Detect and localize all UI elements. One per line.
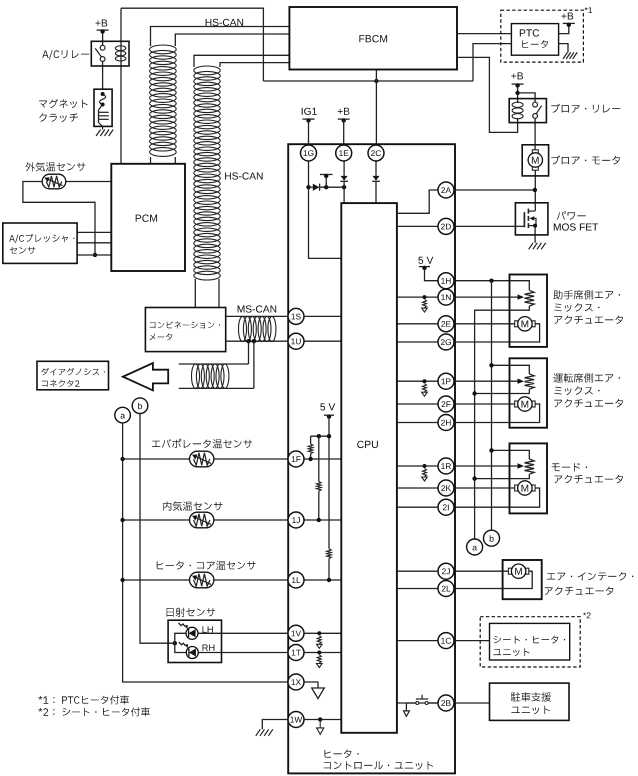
pin 1F bbox=[288, 451, 304, 467]
wire FBCM to PTC heater upper pin bbox=[457, 33, 511, 35]
wire rail to PTC heater lower pin bbox=[473, 44, 511, 81]
wire MS-CAN bottom conductor to pin 1U bbox=[226, 340, 289, 342]
wire A/C relay coil to top bus, down to PCM bbox=[121, 8, 263, 81]
wire diag pair risers bbox=[248, 341, 250, 364]
label *2 bbox=[583, 612, 591, 618]
pin 1R bbox=[438, 458, 454, 474]
pin 1S bbox=[288, 308, 304, 324]
wire FBCM to blower relay coil bbox=[457, 57, 518, 132]
heater core temp sensor row 1L bbox=[123, 579, 190, 581]
label MS-CAN bbox=[238, 305, 277, 312]
wire blower relay +B and switch bbox=[512, 83, 524, 85]
interior temp sensor bbox=[190, 512, 214, 528]
wire b tee to actuator3 pot top bbox=[492, 450, 530, 459]
heater core temp sensor bbox=[190, 572, 214, 588]
pin 2D bbox=[438, 218, 454, 234]
MOS FET symbol bbox=[523, 212, 525, 227]
A/C relay switch bbox=[100, 45, 105, 50]
wire MS-CAN top conductor to pin 1S bbox=[226, 315, 289, 317]
blower relay box bbox=[509, 99, 546, 123]
pin 1W bbox=[288, 712, 304, 728]
pin 1P bbox=[438, 373, 454, 389]
blower motor box bbox=[522, 145, 548, 176]
ground below magnet clutch bbox=[96, 130, 113, 137]
sun sensor RH row 1T bbox=[198, 652, 288, 654]
label HS-CAN middle bbox=[225, 172, 263, 179]
PTC heater dashed box bbox=[501, 10, 584, 62]
A/C pressure sensor box bbox=[3, 223, 77, 263]
evaporator temp sensor row 1F bbox=[123, 458, 190, 460]
outside air temp sensor bbox=[42, 174, 66, 189]
diode on 1E line bbox=[343, 160, 345, 176]
FBCM bbox=[289, 7, 457, 70]
wire pin 1R to actuator3 wiper bbox=[397, 465, 438, 467]
wire pin 1S to CPU bbox=[304, 315, 341, 317]
label passenger air mix actuator bbox=[553, 290, 620, 299]
node a (left) bbox=[115, 407, 131, 423]
node b (right) bbox=[484, 530, 500, 546]
wire pin 2H to actuator2 motor return bbox=[397, 422, 438, 424]
parking assist unit box bbox=[490, 683, 570, 720]
diode on 2C line bbox=[375, 160, 377, 176]
sun sensor common from b bbox=[173, 641, 177, 645]
wire +B to A/C relay switch bbox=[102, 32, 104, 46]
twisted pair HS-CAN 1 (FBCM-PCM) bbox=[150, 45, 177, 156]
power tap above diode junction bbox=[325, 176, 327, 187]
junction b riser top bbox=[489, 279, 493, 283]
label air intake actuator bbox=[547, 572, 634, 581]
pin 2E bbox=[438, 316, 454, 332]
label sun sensor bbox=[167, 608, 216, 617]
wire pin 2I to actuator3 motor return bbox=[397, 506, 438, 508]
wire outside air temp sensor return loop bbox=[23, 182, 95, 256]
magnet clutch coil/spring bbox=[101, 92, 105, 96]
node a (right) bbox=[467, 539, 483, 555]
label mode actuator bbox=[552, 463, 588, 472]
wire pin 1C to seat heater unit bbox=[397, 640, 438, 642]
label driver air mix actuator bbox=[553, 373, 620, 382]
ESD network at 1R bbox=[423, 464, 427, 468]
wire pin 1H to actuator1 pot top bbox=[454, 281, 529, 291]
wire PTC heater ground bbox=[559, 44, 568, 53]
label outside air temp sensor bbox=[25, 162, 85, 171]
5V label left bbox=[320, 403, 335, 410]
footnote *2 bbox=[38, 707, 149, 716]
pin 2A bbox=[438, 182, 454, 198]
5V pull-up rail bbox=[324, 414, 334, 416]
pull-up tee bbox=[311, 435, 329, 437]
pin 1U bbox=[288, 333, 304, 349]
A/C relay coil bbox=[115, 46, 125, 61]
pin 2J bbox=[438, 563, 454, 579]
actuator2 potentiometer bbox=[525, 374, 535, 389]
wire MOS FET source to ground bbox=[534, 226, 536, 243]
blower relay coil bbox=[512, 102, 523, 119]
+B at A/C relay bbox=[96, 20, 108, 27]
wire pair2 straight section to combination meter bbox=[194, 279, 196, 308]
blower relay switch bbox=[533, 102, 538, 107]
evaporator temp sensor bbox=[190, 451, 214, 467]
wire pin 2L to intake actuator motor return bbox=[397, 588, 438, 590]
combination meter box bbox=[145, 308, 225, 352]
seat heater unit box bbox=[490, 623, 570, 660]
pin 1L bbox=[288, 572, 304, 588]
+B at PTC bbox=[562, 13, 574, 20]
wires A/C pressure sensor to PCM bbox=[77, 231, 111, 233]
wire a riser (pot return) bbox=[475, 306, 530, 539]
actuator3 motor bbox=[515, 485, 518, 491]
wire pin 1N to actuator1 wiper bbox=[397, 296, 438, 298]
wire pin 2F to actuator2 motor bbox=[397, 403, 438, 405]
actuator1 motor bbox=[515, 321, 518, 327]
wire pin 2G to actuator1 motor return bbox=[397, 341, 438, 343]
pin 1V bbox=[288, 625, 304, 641]
pin 1H bbox=[438, 273, 454, 289]
mode actuator box bbox=[510, 443, 548, 513]
wire 5V to pin 1H bbox=[419, 266, 430, 268]
parking switch to ground at 2B bbox=[406, 703, 416, 711]
pin 2C bbox=[368, 145, 384, 161]
pin 1G bbox=[301, 145, 317, 161]
wire 1W to CPU bbox=[304, 719, 341, 721]
wire pin 2B to parking assist unit bbox=[397, 702, 438, 704]
driver air mix actuator box bbox=[510, 358, 548, 427]
wire HS-CAN pair1 conductors to FBCM bbox=[151, 27, 290, 47]
wire 1W to chassis ground bbox=[262, 720, 288, 730]
wire pin 2E to actuator1 motor bbox=[397, 323, 438, 325]
sun sensor LH photodiode bbox=[186, 627, 198, 639]
passenger air mix actuator box bbox=[510, 275, 548, 347]
pin 2H bbox=[438, 415, 454, 431]
wire blower motor to MOS FET drain bbox=[534, 170, 536, 211]
actuator3 potentiometer bbox=[525, 459, 535, 474]
twisted pair MS-CAN (horizontal) bbox=[239, 316, 276, 341]
twisted pair diagnosis connector (horizontal) bbox=[192, 364, 229, 388]
pin 2B bbox=[438, 695, 454, 711]
wire outside air temp sensor to PCM bbox=[66, 181, 112, 183]
wire b riser (pot supply) bbox=[491, 281, 493, 531]
pin 2F bbox=[438, 396, 454, 412]
PCM bbox=[111, 164, 185, 271]
seat heater dashed box bbox=[480, 617, 580, 667]
CPU bbox=[341, 203, 397, 733]
label A/C relay bbox=[42, 50, 89, 60]
wire pin 2J to intake actuator motor bbox=[397, 570, 438, 572]
label *1 bbox=[585, 7, 593, 13]
wire b bus down to sun sensor bbox=[140, 414, 175, 644]
diagnosis connector 2 box bbox=[37, 361, 109, 390]
pin 2L bbox=[438, 581, 454, 597]
label HS-CAN top bbox=[206, 19, 244, 26]
wire 1G branch to CPU left bbox=[309, 187, 342, 258]
ESD at 1V bbox=[317, 631, 321, 635]
big arrow to diagnosis connector bbox=[123, 363, 168, 390]
diode network below 1G/1E bbox=[308, 160, 310, 187]
label power MOS FET bbox=[557, 211, 586, 220]
wire FBCM/2C power rail y=81 bbox=[263, 80, 473, 82]
pin 1T bbox=[288, 645, 304, 661]
sun sensor box bbox=[168, 620, 221, 662]
actuator2 motor bbox=[515, 401, 518, 407]
wire a tee from actuator2 pot bottom bbox=[475, 389, 530, 393]
wire b tee to actuator2 pot top bbox=[492, 365, 530, 374]
junction pressure sensor wire3 bbox=[93, 253, 97, 257]
wire diagnosis connector pair top conductor bbox=[179, 363, 249, 365]
junction FBCM bottom bbox=[374, 79, 378, 83]
pull-up resistor to 1F bbox=[310, 436, 312, 444]
air intake actuator box bbox=[503, 560, 542, 599]
label blower motor bbox=[551, 155, 620, 164]
wire pin 2A to blower motor junction bbox=[454, 189, 535, 191]
5V label at 1H bbox=[418, 257, 433, 264]
ESD network at 1P bbox=[423, 379, 427, 383]
wire pin 2K to actuator3 motor bbox=[397, 487, 438, 489]
wire blower relay to blower motor bbox=[534, 118, 536, 150]
label blower relay bbox=[551, 104, 620, 113]
wire 1X to signal ground arrow bbox=[304, 682, 318, 688]
blower motor M bbox=[532, 150, 538, 153]
pull-up resistor to 1J bbox=[318, 436, 320, 481]
actuator1 potentiometer bbox=[525, 290, 535, 306]
+B feed to pin 1E bbox=[338, 108, 350, 115]
IG1 feed to pin 1G bbox=[302, 108, 317, 115]
pin 1E bbox=[336, 145, 352, 161]
junction diag pair taps bbox=[246, 339, 250, 343]
pin 2K bbox=[438, 480, 454, 496]
wire pin 2A to CPU bbox=[397, 190, 438, 213]
wire pin 1P to actuator2 wiper bbox=[397, 380, 438, 382]
+B at blower relay bbox=[511, 72, 523, 79]
A/C relay box bbox=[91, 41, 129, 66]
ESD network at 1N bbox=[423, 295, 427, 299]
pin 2G bbox=[438, 334, 454, 350]
wire PTC heater +B bbox=[559, 26, 569, 33]
pin 1C bbox=[438, 633, 454, 649]
footnote *1 bbox=[38, 695, 128, 704]
magnet clutch box bbox=[94, 89, 112, 126]
pin 1N bbox=[438, 289, 454, 305]
pin 2I bbox=[438, 499, 454, 515]
intake motor bbox=[508, 568, 511, 574]
heater control unit box bbox=[288, 144, 455, 773]
pin 1J bbox=[288, 512, 304, 528]
ESD at 1T bbox=[317, 651, 321, 655]
wire a tee from actuator3 pot bottom bbox=[475, 474, 530, 478]
wire A/C relay switch to magnet clutch bbox=[102, 61, 104, 89]
sun sensor LH row 1V bbox=[198, 632, 288, 634]
wire a bus down left side bbox=[123, 423, 289, 682]
label magnet clutch bbox=[39, 99, 95, 108]
twisted pair HS-CAN 2 (FBCM-combination meter) bbox=[194, 66, 220, 280]
interior temp sensor row 1J bbox=[123, 519, 190, 521]
power MOS FET box bbox=[515, 203, 548, 235]
wire diagnosis connector pair bottom conductor bbox=[179, 387, 254, 389]
PTC heater box bbox=[511, 24, 558, 56]
wire pin 2D to power MOS FET gate bbox=[454, 212, 524, 226]
wire pin 1U to CPU bbox=[304, 340, 341, 342]
junction 2A / motor / FET bbox=[533, 188, 537, 192]
pin 1X bbox=[288, 674, 304, 690]
wire HS-CAN pair2 conductors to FBCM bbox=[194, 55, 289, 67]
node b (left) bbox=[132, 398, 148, 414]
sun sensor RH photodiode bbox=[186, 647, 198, 659]
